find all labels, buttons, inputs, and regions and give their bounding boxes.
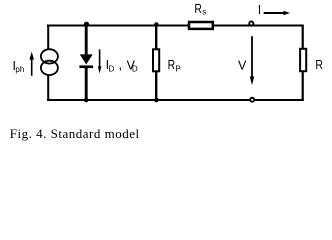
label ID , VD <box>106 58 138 74</box>
wire top rail <box>47 25 303 27</box>
junction dot top of diode branch <box>84 22 89 27</box>
resistor R (load) <box>300 49 306 71</box>
resistor Rs (series, horizontal) <box>189 22 213 29</box>
svg-text:I: I <box>258 3 261 17</box>
label Iph <box>13 59 25 74</box>
current arrow Iph (points up) <box>29 52 34 76</box>
svg-text:P: P <box>175 65 180 74</box>
label Rs <box>194 1 206 17</box>
svg-text:,: , <box>119 58 122 72</box>
current arrow ID (points down) <box>98 49 102 73</box>
label Rp <box>168 57 181 74</box>
svg-text:Fig. 4. Standard model: Fig. 4. Standard model <box>10 126 140 141</box>
wire Rp branch upper <box>155 25 157 50</box>
current arrow I (points right) <box>264 11 290 15</box>
junction dot top of Rp branch <box>154 22 158 26</box>
wire left branch upper segment <box>47 25 49 50</box>
svg-text:R: R <box>194 1 202 16</box>
voltage arrow V (points down) <box>250 36 254 85</box>
svg-text:ph: ph <box>15 65 24 74</box>
terminal node circle top <box>249 21 253 25</box>
wire bottom rail <box>47 99 304 101</box>
svg-text:s: s <box>202 7 206 16</box>
diode D (cathode down) <box>79 54 93 68</box>
current source Iph (two overlapping circles) <box>41 49 58 75</box>
junction dot bottom of diode branch <box>84 98 89 103</box>
wire diode branch lower (bold) <box>85 68 88 102</box>
svg-text:V: V <box>238 58 247 72</box>
junction dot bottom of Rp branch <box>154 98 159 103</box>
svg-text:R: R <box>168 57 176 72</box>
resistor Rp <box>153 49 159 71</box>
wire left branch lower segment <box>47 75 49 101</box>
svg-text:R: R <box>315 57 323 72</box>
terminal node circle bottom <box>250 98 254 102</box>
wire Rp branch lower <box>155 72 157 102</box>
svg-text:D: D <box>109 65 115 74</box>
svg-text:D: D <box>132 65 138 74</box>
wire right branch upper <box>302 25 304 50</box>
wire diode branch upper (bold) <box>85 25 88 55</box>
wire right branch lower <box>302 71 304 101</box>
